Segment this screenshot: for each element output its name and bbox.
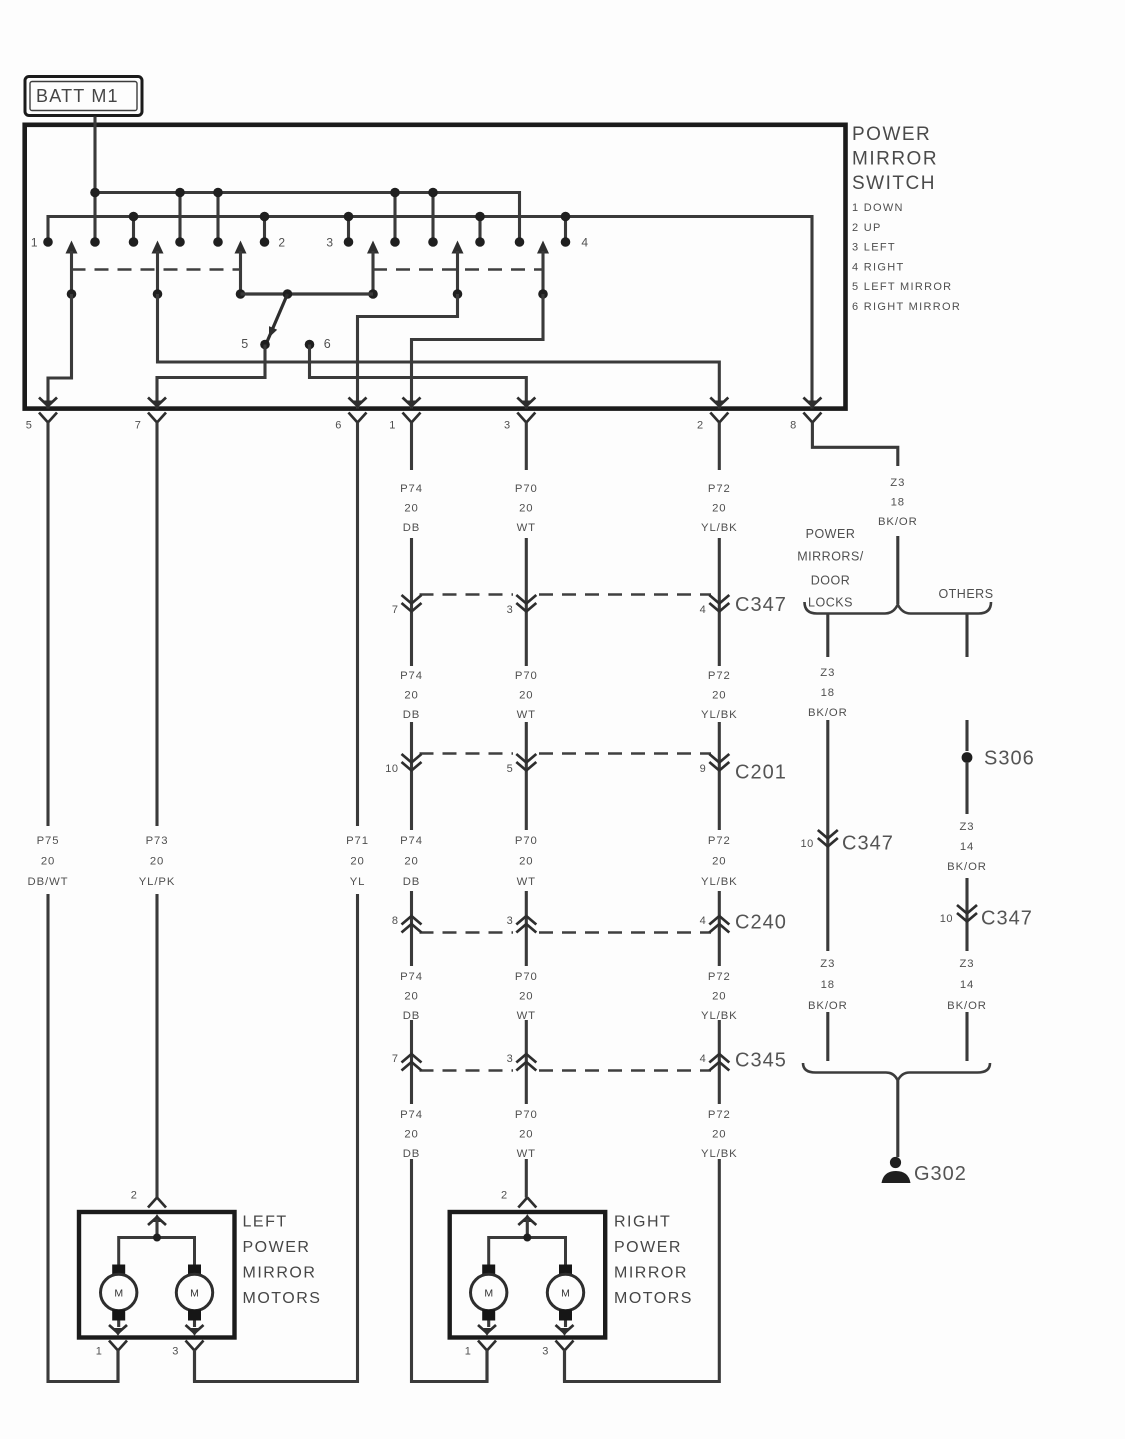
- wire P75 upper: [46, 423, 49, 827]
- mechanical linkage dashed right: [373, 268, 543, 271]
- svg-text:YL/BK: YL/BK: [701, 876, 738, 888]
- label Z3 18 BK/OR left lower: [808, 958, 848, 1012]
- svg-text:Z3: Z3: [820, 667, 835, 679]
- svg-text:S306: S306: [984, 748, 1035, 770]
- ground symbol G302: [882, 1157, 911, 1183]
- wire P73 upper: [155, 423, 158, 827]
- wire P71 upper: [356, 423, 359, 827]
- svg-text:3: 3: [326, 236, 333, 250]
- svg-text:BK/OR: BK/OR: [947, 861, 987, 873]
- svg-text:P75: P75: [37, 835, 60, 847]
- svg-text:P73: P73: [146, 835, 169, 847]
- svg-text:7: 7: [392, 1053, 399, 1065]
- svg-text:M: M: [190, 1288, 199, 1300]
- wire Z3 left branch mid: [826, 720, 829, 951]
- svg-text:POWER: POWER: [243, 1239, 311, 1256]
- svg-text:3: 3: [172, 1346, 179, 1358]
- svg-text:4: 4: [700, 1053, 707, 1065]
- left power mirror motors box: [79, 1212, 235, 1338]
- svg-text:C201: C201: [735, 762, 787, 784]
- label Z3 18 BK/OR top: [878, 477, 918, 528]
- label P70 20 WT block2: [515, 670, 538, 721]
- svg-text:P70: P70: [515, 835, 538, 847]
- svg-text:DB/WT: DB/WT: [28, 876, 69, 888]
- svg-text:P70: P70: [515, 1109, 538, 1121]
- svg-text:P72: P72: [708, 1109, 731, 1121]
- svg-text:MOTORS: MOTORS: [243, 1290, 322, 1307]
- svg-text:WT: WT: [517, 522, 536, 534]
- svg-text:2: 2: [278, 236, 285, 250]
- selector bar: [241, 292, 374, 295]
- label P70 20 WT block4: [515, 971, 538, 1022]
- svg-text:BK/OR: BK/OR: [808, 1000, 848, 1012]
- svg-text:BK/OR: BK/OR: [878, 516, 918, 528]
- wire to ground G302: [896, 1081, 899, 1158]
- svg-text:DB: DB: [403, 522, 421, 534]
- svg-text:DB: DB: [403, 1148, 421, 1160]
- wire Z3 left branch upper: [826, 614, 829, 657]
- switch pole arrow 4: [367, 241, 379, 299]
- label P74 20 DB block1: [400, 483, 423, 534]
- svg-text:20: 20: [404, 503, 418, 515]
- svg-text:4: 4: [700, 915, 707, 927]
- wire column P72: [718, 423, 721, 1105]
- left motors pin 1 connector: [109, 1325, 127, 1382]
- svg-text:1 DOWN: 1 DOWN: [852, 202, 904, 214]
- label P75 20 DB/WT: [28, 835, 69, 888]
- svg-text:P70: P70: [515, 670, 538, 682]
- power mirror switch box outline: [25, 125, 846, 409]
- label Z3 18 BK/OR left: [808, 667, 848, 719]
- connector C201 chevrons and pin numbers: [385, 754, 729, 775]
- svg-text:20: 20: [712, 991, 726, 1003]
- wire Z3 right branch into brace: [965, 1012, 968, 1061]
- svg-text:P71: P71: [346, 835, 369, 847]
- svg-text:M: M: [114, 1288, 123, 1300]
- svg-text:DB: DB: [403, 1010, 421, 1022]
- svg-text:3: 3: [507, 915, 514, 927]
- svg-text:5 LEFT MIRROR: 5 LEFT MIRROR: [852, 281, 952, 293]
- wire P75 lower to left motor pin 1: [48, 894, 118, 1382]
- switch pole arrow 5: [452, 241, 464, 299]
- svg-text:P70: P70: [515, 483, 538, 495]
- wire contact6 to pin 3: [310, 345, 527, 409]
- left motors junction dot: [153, 1234, 161, 1242]
- svg-text:5: 5: [26, 420, 33, 432]
- svg-text:4: 4: [700, 604, 707, 616]
- label LEFT POWER MIRROR MOTORS: [243, 1214, 322, 1308]
- wire upper rail drop x218: [216, 193, 219, 243]
- label P70 20 WT block1: [515, 483, 538, 534]
- svg-text:18: 18: [821, 979, 835, 991]
- svg-text:20: 20: [350, 856, 364, 868]
- right motors pin 1 connector: [478, 1325, 496, 1382]
- svg-text:YL/PK: YL/PK: [139, 876, 176, 888]
- wire column P70: [525, 423, 528, 1105]
- svg-text:DB: DB: [403, 709, 421, 721]
- svg-text:20: 20: [712, 503, 726, 515]
- switch pin 7 connector: [148, 398, 166, 423]
- svg-text:20: 20: [41, 856, 55, 868]
- motor M2 left: [176, 1265, 212, 1328]
- motor M2 right: [547, 1265, 583, 1328]
- svg-text:P72: P72: [708, 670, 731, 682]
- svg-text:14: 14: [960, 841, 974, 853]
- svg-text:Z3: Z3: [960, 958, 975, 970]
- wire Z3 right branch to splice: [965, 720, 968, 751]
- junction dots upper rail: [90, 188, 438, 198]
- bus B+ lower rail to pin 8: [48, 217, 812, 409]
- wire P71 lower to left motor pin 3: [195, 894, 358, 1382]
- switch pin 3 connector: [517, 398, 535, 423]
- svg-text:YL/BK: YL/BK: [701, 1148, 738, 1160]
- right motors junction dot: [523, 1234, 531, 1242]
- battery feed box BATT M1: [25, 77, 142, 116]
- switch legend pin functions: [852, 202, 961, 313]
- svg-text:LEFT: LEFT: [243, 1214, 288, 1231]
- label P74 20 DB block4: [400, 971, 423, 1022]
- svg-text:YL: YL: [350, 876, 366, 888]
- svg-text:20: 20: [519, 690, 533, 702]
- motor M1 left: [101, 1265, 137, 1328]
- svg-text:18: 18: [891, 497, 905, 509]
- svg-text:7: 7: [135, 420, 142, 432]
- switch pin 6 connector: [349, 398, 367, 423]
- svg-text:M: M: [561, 1288, 570, 1300]
- left motors pin 2 connector: [148, 1198, 166, 1238]
- svg-text:6 RIGHT MIRROR: 6 RIGHT MIRROR: [852, 301, 961, 313]
- label P71 20 YL: [346, 835, 369, 888]
- switch pole arrow 2: [152, 241, 164, 299]
- connector C240 dashed line: [420, 931, 712, 934]
- svg-text:10: 10: [940, 913, 953, 925]
- wire P70 lower to right motor pin 2: [525, 1159, 528, 1198]
- wire upper rail drop x180: [178, 193, 181, 243]
- wire P72 lower to right motor pin 3: [565, 1159, 720, 1382]
- svg-text:BK/OR: BK/OR: [947, 1000, 987, 1012]
- svg-text:OTHERS: OTHERS: [938, 587, 993, 601]
- svg-text:DB: DB: [403, 876, 421, 888]
- svg-text:P74: P74: [400, 483, 423, 495]
- svg-text:20: 20: [712, 690, 726, 702]
- wire P74 lower to right motor pin 1: [412, 1159, 488, 1382]
- svg-text:P74: P74: [400, 971, 423, 983]
- svg-text:YL/BK: YL/BK: [701, 522, 738, 534]
- svg-text:8: 8: [790, 420, 797, 432]
- svg-text:4: 4: [581, 236, 588, 250]
- label P74 20 DB block3: [400, 835, 423, 888]
- selector lever to contact 5: [267, 294, 288, 343]
- svg-text:4 RIGHT: 4 RIGHT: [852, 261, 905, 273]
- selector pivot dot: [283, 289, 293, 299]
- svg-text:P70: P70: [515, 971, 538, 983]
- svg-text:20: 20: [519, 503, 533, 515]
- svg-text:6: 6: [335, 420, 342, 432]
- svg-text:20: 20: [519, 991, 533, 1003]
- svg-text:POWER: POWER: [852, 124, 931, 145]
- switch pole arrow 3: [235, 241, 247, 299]
- switch pin 1 connector: [403, 398, 421, 423]
- svg-text:2 UP: 2 UP: [852, 222, 882, 234]
- wire Z3 left branch into brace: [826, 1012, 829, 1061]
- right motors pin 2 connector: [518, 1198, 536, 1238]
- svg-text:20: 20: [404, 1129, 418, 1141]
- wire lower rail drop x133.5: [132, 217, 135, 243]
- svg-text:MOTORS: MOTORS: [614, 1290, 693, 1307]
- bus B+ upper rail: [95, 193, 520, 243]
- svg-text:20: 20: [404, 690, 418, 702]
- splice S306 dot: [962, 752, 973, 763]
- svg-text:8: 8: [392, 915, 399, 927]
- svg-text:20: 20: [712, 856, 726, 868]
- svg-text:5: 5: [241, 337, 248, 351]
- svg-text:1: 1: [96, 1346, 103, 1358]
- connector C345 dashed line: [420, 1069, 712, 1072]
- contact 5 dot: [260, 340, 270, 350]
- label P72 20 YL/BK block1: [701, 483, 738, 534]
- svg-text:WT: WT: [517, 1010, 536, 1022]
- svg-text:1: 1: [389, 420, 396, 432]
- svg-text:3 LEFT: 3 LEFT: [852, 242, 896, 254]
- contact 6 dot: [305, 340, 315, 350]
- wire Z3 right branch mid: [965, 878, 968, 951]
- svg-text:3: 3: [542, 1346, 549, 1358]
- connector C240 chevrons and pin numbers: [392, 915, 729, 933]
- connector C347 dashed line: [420, 593, 712, 596]
- svg-text:Z3: Z3: [890, 477, 905, 489]
- wire Z3 from pin 8: [812, 423, 897, 467]
- wire P73 lower to left motor pin 2: [155, 894, 158, 1198]
- svg-text:SWITCH: SWITCH: [852, 173, 936, 194]
- wire pole5 to pin 6: [358, 294, 458, 409]
- wire Z3 right branch upper: [965, 614, 968, 657]
- label P73 20 YL/PK: [139, 835, 176, 888]
- svg-text:C240: C240: [735, 912, 787, 934]
- motor M1 right: [471, 1265, 507, 1328]
- svg-text:Z3: Z3: [960, 821, 975, 833]
- svg-text:YL/BK: YL/BK: [701, 1010, 738, 1022]
- right motors pin 3 connector: [556, 1325, 574, 1382]
- connector C345 chevrons and pin numbers: [392, 1053, 729, 1071]
- svg-text:14: 14: [960, 979, 974, 991]
- mechanical linkage dashed left: [72, 268, 241, 271]
- svg-text:MIRROR: MIRROR: [614, 1265, 688, 1282]
- svg-text:P74: P74: [400, 1109, 423, 1121]
- label Z3 14 BK/OR right lower: [947, 958, 987, 1012]
- connector C347 right branch chevron: [957, 905, 977, 922]
- switch pole arrow 1: [66, 241, 78, 299]
- wire lower rail drop x348.5: [347, 217, 350, 243]
- svg-text:MIRRORS/: MIRRORS/: [797, 550, 864, 564]
- label P72 20 YL/BK block4: [701, 971, 738, 1022]
- svg-text:1: 1: [31, 236, 38, 250]
- svg-text:3: 3: [504, 420, 511, 432]
- label Z3 14 BK/OR right: [947, 821, 987, 873]
- svg-text:18: 18: [821, 687, 835, 699]
- switch pin 5 connector: [39, 398, 57, 423]
- wire column P74: [410, 423, 413, 1105]
- junction dots lower rail: [129, 212, 571, 222]
- svg-text:POWER: POWER: [806, 527, 856, 541]
- wire lower rail drop x264.5: [263, 217, 266, 243]
- svg-text:10: 10: [385, 763, 398, 775]
- left motors internal bus: [119, 1238, 195, 1265]
- svg-text:9: 9: [700, 763, 707, 775]
- svg-text:RIGHT: RIGHT: [614, 1214, 671, 1231]
- svg-text:P74: P74: [400, 670, 423, 682]
- label P70 20 WT block5: [515, 1109, 538, 1160]
- svg-text:LOCKS: LOCKS: [808, 596, 853, 610]
- brace splice top: [805, 602, 992, 614]
- svg-text:POWER: POWER: [614, 1239, 682, 1256]
- svg-text:WT: WT: [517, 709, 536, 721]
- svg-text:20: 20: [404, 856, 418, 868]
- wire pole1 to pin 5: [48, 294, 72, 409]
- svg-text:1: 1: [465, 1346, 472, 1358]
- connector C201 dashed line: [420, 752, 712, 755]
- brace splice bottom: [803, 1063, 990, 1081]
- connector C347 chevrons and pin numbers: [392, 595, 729, 616]
- label P74 20 DB block5: [400, 1109, 423, 1160]
- label POWER MIRRORS/DOOR LOCKS: [797, 527, 864, 610]
- svg-text:BATT M1: BATT M1: [36, 86, 119, 106]
- svg-text:3: 3: [507, 1053, 514, 1065]
- svg-text:20: 20: [519, 1129, 533, 1141]
- label P72 20 YL/BK block5: [701, 1109, 738, 1160]
- svg-text:M: M: [484, 1288, 493, 1300]
- wire upper rail drop x395: [393, 193, 396, 243]
- svg-text:5: 5: [507, 763, 514, 775]
- svg-text:20: 20: [519, 856, 533, 868]
- label P70 20 WT block3: [515, 835, 538, 888]
- wire lower rail drop x565.5: [564, 217, 567, 243]
- label RIGHT POWER MIRROR MOTORS: [614, 1214, 693, 1308]
- svg-text:C345: C345: [735, 1050, 787, 1072]
- wire Z3 right branch below splice: [965, 763, 968, 814]
- svg-text:YL/BK: YL/BK: [701, 709, 738, 721]
- switch title POWER MIRROR SWITCH: [852, 124, 938, 194]
- label P72 20 YL/BK block2: [701, 670, 738, 721]
- svg-text:2: 2: [697, 420, 704, 432]
- switch pin 8 connector: [803, 398, 821, 423]
- svg-text:7: 7: [392, 604, 399, 616]
- wire battery feed into switch: [93, 117, 96, 243]
- switch pole arrow 6: [537, 241, 549, 299]
- label P72 20 YL/BK block3: [701, 835, 738, 888]
- svg-text:G302: G302: [914, 1163, 967, 1185]
- svg-text:20: 20: [150, 856, 164, 868]
- svg-text:P72: P72: [708, 835, 731, 847]
- wire lower rail drop x480: [478, 217, 481, 243]
- svg-text:MIRROR: MIRROR: [852, 149, 938, 170]
- svg-text:C347: C347: [735, 594, 787, 616]
- right power mirror motors box: [450, 1212, 606, 1338]
- svg-text:2: 2: [501, 1190, 508, 1202]
- label P74 20 DB block2: [400, 670, 423, 721]
- svg-text:20: 20: [404, 991, 418, 1003]
- svg-text:MIRROR: MIRROR: [243, 1265, 317, 1282]
- svg-text:WT: WT: [517, 1148, 536, 1160]
- wire contact5 to pin 7: [157, 345, 265, 409]
- svg-text:P74: P74: [400, 835, 423, 847]
- wire upper rail drop x433: [431, 193, 434, 243]
- svg-text:C347: C347: [842, 833, 894, 855]
- svg-text:C347: C347: [981, 908, 1033, 930]
- switch contact dots row: [43, 237, 570, 247]
- connector C347 left branch chevron: [818, 830, 838, 847]
- svg-text:P72: P72: [708, 483, 731, 495]
- wire Z3 into brace: [896, 536, 899, 604]
- svg-text:3: 3: [507, 604, 514, 616]
- svg-text:2: 2: [131, 1190, 138, 1202]
- svg-text:DOOR: DOOR: [811, 574, 851, 588]
- switch pin 2 connector: [710, 398, 728, 423]
- wire pole2 to pin 2: [158, 294, 720, 409]
- right motors internal bus: [489, 1238, 566, 1265]
- svg-text:BK/OR: BK/OR: [808, 707, 848, 719]
- svg-text:6: 6: [324, 337, 331, 351]
- svg-text:Z3: Z3: [820, 958, 835, 970]
- left motors pin 3 connector: [186, 1325, 204, 1382]
- svg-text:10: 10: [801, 838, 814, 850]
- svg-text:20: 20: [712, 1129, 726, 1141]
- wire pole6 to pin 1: [412, 294, 544, 409]
- svg-text:P72: P72: [708, 971, 731, 983]
- svg-text:WT: WT: [517, 876, 536, 888]
